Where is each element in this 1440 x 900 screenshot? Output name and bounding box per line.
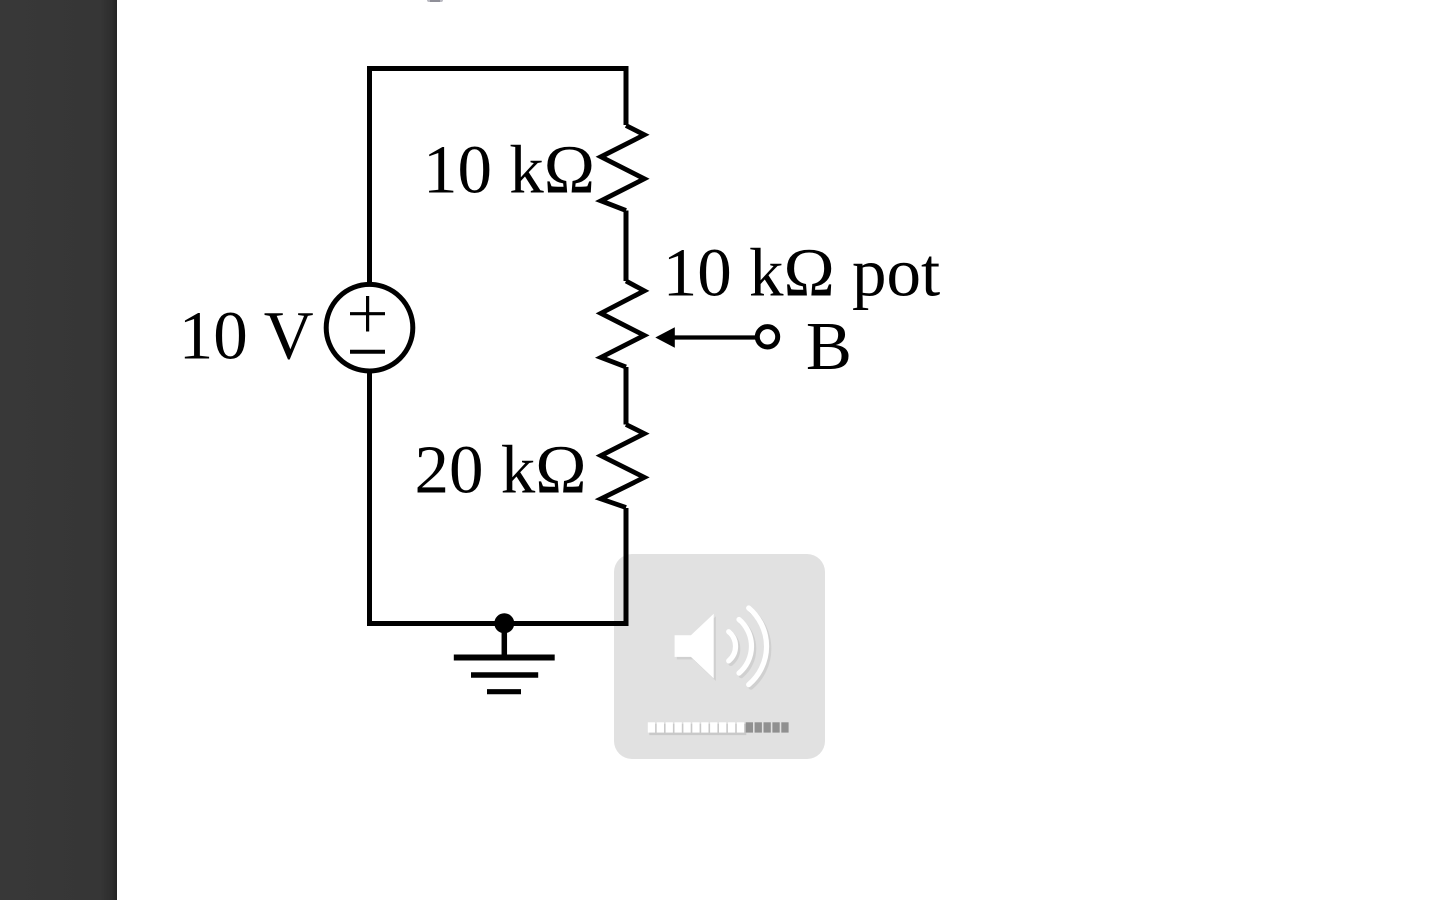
svg-text:B: B [806, 308, 852, 384]
svg-text:10 V: 10 V [179, 297, 314, 373]
V1 plus sign [350, 296, 385, 332]
svg-text:10 kΩ: 10 kΩ [423, 131, 595, 207]
resistor R1 10k zigzag [601, 126, 644, 211]
speaker icon [675, 608, 767, 685]
resistor 20k zigzag [601, 425, 644, 508]
pot wiper arrow [655, 327, 777, 348]
wire top loop: left-up, top, right-down to R1 [370, 69, 627, 285]
left dark sidebar [0, 0, 117, 900]
volume level squares [648, 722, 789, 735]
node junction dot [494, 613, 514, 633]
potentiometer 10k zigzag [601, 281, 644, 367]
svg-text:10 kΩ pot: 10 kΩ pot [663, 235, 940, 311]
wire between pot and 20k resistor [624, 367, 629, 425]
audio overlay panel [614, 554, 825, 759]
V1 minus sign [350, 350, 385, 354]
voltage source V1 circle [326, 284, 413, 371]
top gray notch (cut-off scrollbar) [427, 0, 443, 2]
terminal B circle [757, 327, 777, 347]
wire between R1 and pot [624, 211, 629, 282]
speaker icon shadow [677, 611, 769, 688]
ground symbol [454, 623, 555, 692]
wire bottom loop: left-down, bottom, right-up to 20k [370, 372, 627, 624]
svg-text:20 kΩ: 20 kΩ [415, 431, 587, 507]
